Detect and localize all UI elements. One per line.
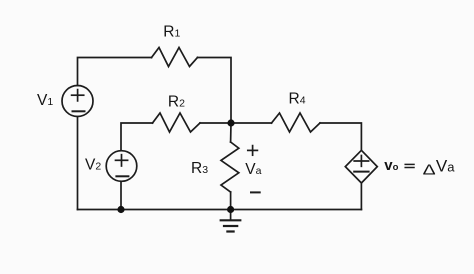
svg-text:Va: Va	[436, 157, 455, 176]
svg-text:Δ: Δ	[423, 161, 436, 178]
